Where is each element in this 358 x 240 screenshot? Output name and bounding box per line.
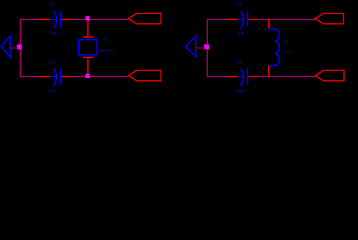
output port OUT4 (right bottom) bbox=[316, 70, 345, 80]
label Y1 designator bbox=[103, 38, 109, 44]
pin C2 left bbox=[39, 76, 50, 78]
svg-text:12MHz: 12MHz bbox=[100, 48, 116, 54]
label C2 designator bbox=[49, 60, 56, 66]
output port OUT3 (right top) bbox=[315, 13, 344, 23]
inductor L1 bbox=[269, 20, 280, 77]
svg-text:Y1: Y1 bbox=[103, 38, 109, 44]
wire top-left net bbox=[70, 19, 128, 21]
pin C1 left bbox=[39, 19, 50, 21]
svg-text:L1: L1 bbox=[283, 39, 289, 45]
wire bottom-left net bbox=[70, 76, 128, 78]
input port P1 (left circuit) bbox=[1, 36, 10, 57]
junction node A (left input) bbox=[17, 44, 22, 49]
junction node B (crystal top) bbox=[85, 16, 89, 20]
capacitor C1 bbox=[50, 11, 61, 29]
wire vertical right bus bbox=[207, 20, 225, 77]
svg-text:30p: 30p bbox=[50, 31, 58, 36]
label C4 designator bbox=[236, 60, 243, 66]
junction node D (right input) bbox=[204, 44, 209, 49]
capacitor C2 bbox=[50, 68, 61, 86]
pin C1 right bbox=[62, 19, 71, 21]
svg-text:30pF: 30pF bbox=[235, 88, 246, 93]
pin C3 right bbox=[249, 19, 258, 21]
input port P2 (right circuit) bbox=[186, 36, 196, 57]
wire top-right net bbox=[258, 19, 316, 21]
label Y1 value 12MHz bbox=[100, 48, 116, 54]
svg-text:30p: 30p bbox=[237, 31, 245, 36]
svg-text:C2: C2 bbox=[49, 60, 56, 66]
pin C4 right bbox=[249, 76, 258, 78]
crystal Y1 bbox=[79, 21, 97, 75]
pin C3 left bbox=[226, 19, 237, 21]
label C3 designator bbox=[236, 2, 243, 8]
capacitor C3 bbox=[237, 11, 248, 29]
wire bottom-right net bbox=[258, 76, 316, 78]
junction node C (crystal bottom) bbox=[85, 74, 89, 78]
label L1 value bbox=[284, 48, 290, 54]
svg-text:C3: C3 bbox=[236, 2, 243, 8]
output port OUT1 (left top) bbox=[129, 13, 162, 23]
svg-text:30pF: 30pF bbox=[47, 88, 58, 93]
svg-text:C4: C4 bbox=[236, 60, 243, 66]
label C3 value bbox=[237, 31, 245, 36]
label C2 value bbox=[47, 88, 58, 93]
wire vertical left bus bbox=[21, 20, 39, 77]
svg-text:C1: C1 bbox=[49, 2, 56, 8]
pin of P1 bbox=[10, 47, 18, 49]
pin C2 right bbox=[62, 76, 71, 78]
svg-text:1u: 1u bbox=[284, 48, 290, 54]
capacitor C4 bbox=[237, 68, 248, 86]
label C4 value bbox=[235, 88, 246, 93]
output port OUT2 (left bottom) bbox=[129, 70, 162, 80]
label C1 designator bbox=[49, 2, 56, 8]
pin C4 left bbox=[226, 76, 237, 78]
label L1 designator bbox=[283, 39, 289, 45]
pin of P2 bbox=[196, 47, 205, 49]
label C1 value bbox=[50, 31, 58, 36]
